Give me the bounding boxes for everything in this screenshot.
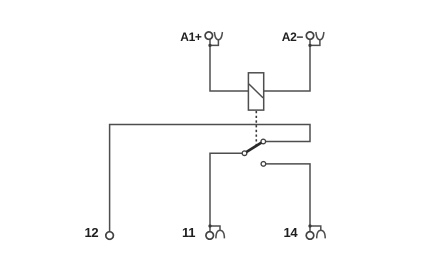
svg-text:14: 14 [284, 225, 299, 240]
svg-text:A2−: A2− [282, 30, 304, 44]
svg-text:A1+: A1+ [180, 30, 202, 44]
svg-text:11: 11 [182, 225, 195, 240]
svg-text:12: 12 [85, 225, 99, 240]
